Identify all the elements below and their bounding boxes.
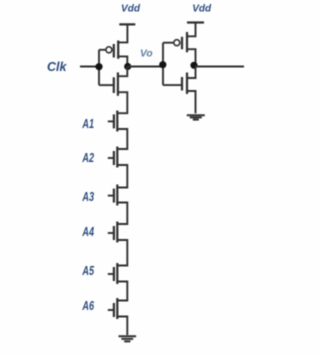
wire A3 source to next drain — [117, 203, 127, 225]
nmos A5 channel bar — [116, 263, 118, 284]
pmos M3 gate bubble — [174, 40, 180, 46]
svg-text:A1: A1 — [82, 116, 94, 131]
nmos A5 gate lead — [108, 273, 114, 275]
nmos M4 gate lead — [163, 84, 182, 86]
nmos A1 gate lead — [108, 120, 114, 122]
wire M2 drain to node Vo — [118, 67, 127, 77]
nmos M2 gate bar — [113, 77, 115, 93]
node dot output — [190, 62, 197, 69]
wire A1 source to next drain — [117, 129, 127, 149]
ground symbol (stage 2) — [187, 115, 205, 119]
nmos A4 gate bar — [113, 226, 115, 240]
nmos M4 channel bar — [186, 73, 188, 95]
wire Clk input — [80, 66, 99, 68]
wire M4 drain — [187, 67, 196, 79]
nmos A1 gate bar — [113, 114, 115, 128]
pmos M3 gate bar — [181, 37, 183, 50]
wire M3 drain to output node — [187, 49, 196, 66]
nmos A3 gate bar — [113, 189, 115, 203]
wire M1 gate lead — [99, 49, 106, 51]
nmos A2 gate bar — [113, 151, 115, 165]
wire output — [196, 66, 245, 68]
wire A2 source to next drain — [117, 165, 127, 188]
wire Vdd to PMOS M3 source — [187, 23, 196, 37]
nmos A6 gate bar — [113, 303, 115, 317]
nmos A3 gate lead — [108, 195, 114, 197]
svg-text:Vo: Vo — [140, 48, 153, 60]
nmos A6 gate lead — [108, 309, 114, 311]
nmos M2 (clock evaluate) gate lead — [99, 84, 114, 86]
nmos A6 channel bar — [116, 298, 118, 319]
nmos A2 channel bar — [116, 147, 118, 168]
wire M1 drain to node Vo — [118, 56, 127, 66]
nmos M4 gate bar — [181, 77, 183, 91]
wire Clk gate line vertical — [98, 50, 100, 85]
wire A6 source to ground — [117, 317, 127, 336]
svg-text:Vdd: Vdd — [121, 4, 141, 15]
nmos A2 gate lead — [108, 157, 114, 159]
wire M3 gate lead — [163, 42, 174, 44]
svg-text:Clk: Clk — [47, 59, 67, 74]
svg-text:A6: A6 — [82, 298, 95, 313]
wire M4 source to ground — [187, 91, 196, 113]
svg-text:A3: A3 — [82, 189, 95, 204]
Vdd rail bar (stage 1) — [119, 23, 135, 25]
ground symbol (bottom of chain) — [119, 336, 137, 341]
node dot Vo (M1/M2 drain junction) — [124, 63, 131, 70]
wire node Vo to inverter input — [127, 66, 163, 68]
nmos A4 channel bar — [116, 222, 118, 243]
svg-text:A2: A2 — [82, 150, 95, 165]
svg-text:Vdd: Vdd — [192, 4, 212, 15]
wire A5 source to next drain — [117, 282, 127, 301]
nmos A5 gate bar — [113, 267, 115, 281]
svg-text:A4: A4 — [82, 224, 95, 239]
node dot inverter input — [159, 61, 166, 68]
wire Vdd to PMOS M1 source — [118, 24, 127, 42]
pmos M3 channel bar — [186, 32, 188, 52]
node dot Clk junction — [95, 63, 102, 70]
wire M2 source to A1 drain — [117, 92, 127, 113]
pmos M1 channel bar — [117, 41, 119, 59]
wire inverter input gate line — [162, 43, 164, 85]
nmos M2 channel bar — [117, 72, 119, 95]
nmos A1 channel bar — [116, 111, 118, 132]
Vdd rail bar (stage 2) — [187, 21, 204, 23]
nmos A3 channel bar — [116, 185, 118, 206]
wire A4 source to next drain — [117, 240, 127, 266]
svg-text:A5: A5 — [82, 263, 95, 278]
nmos A4 gate lead — [108, 232, 114, 234]
pmos M1 gate bar — [113, 44, 115, 58]
pmos M1 gate bubble — [106, 47, 112, 53]
